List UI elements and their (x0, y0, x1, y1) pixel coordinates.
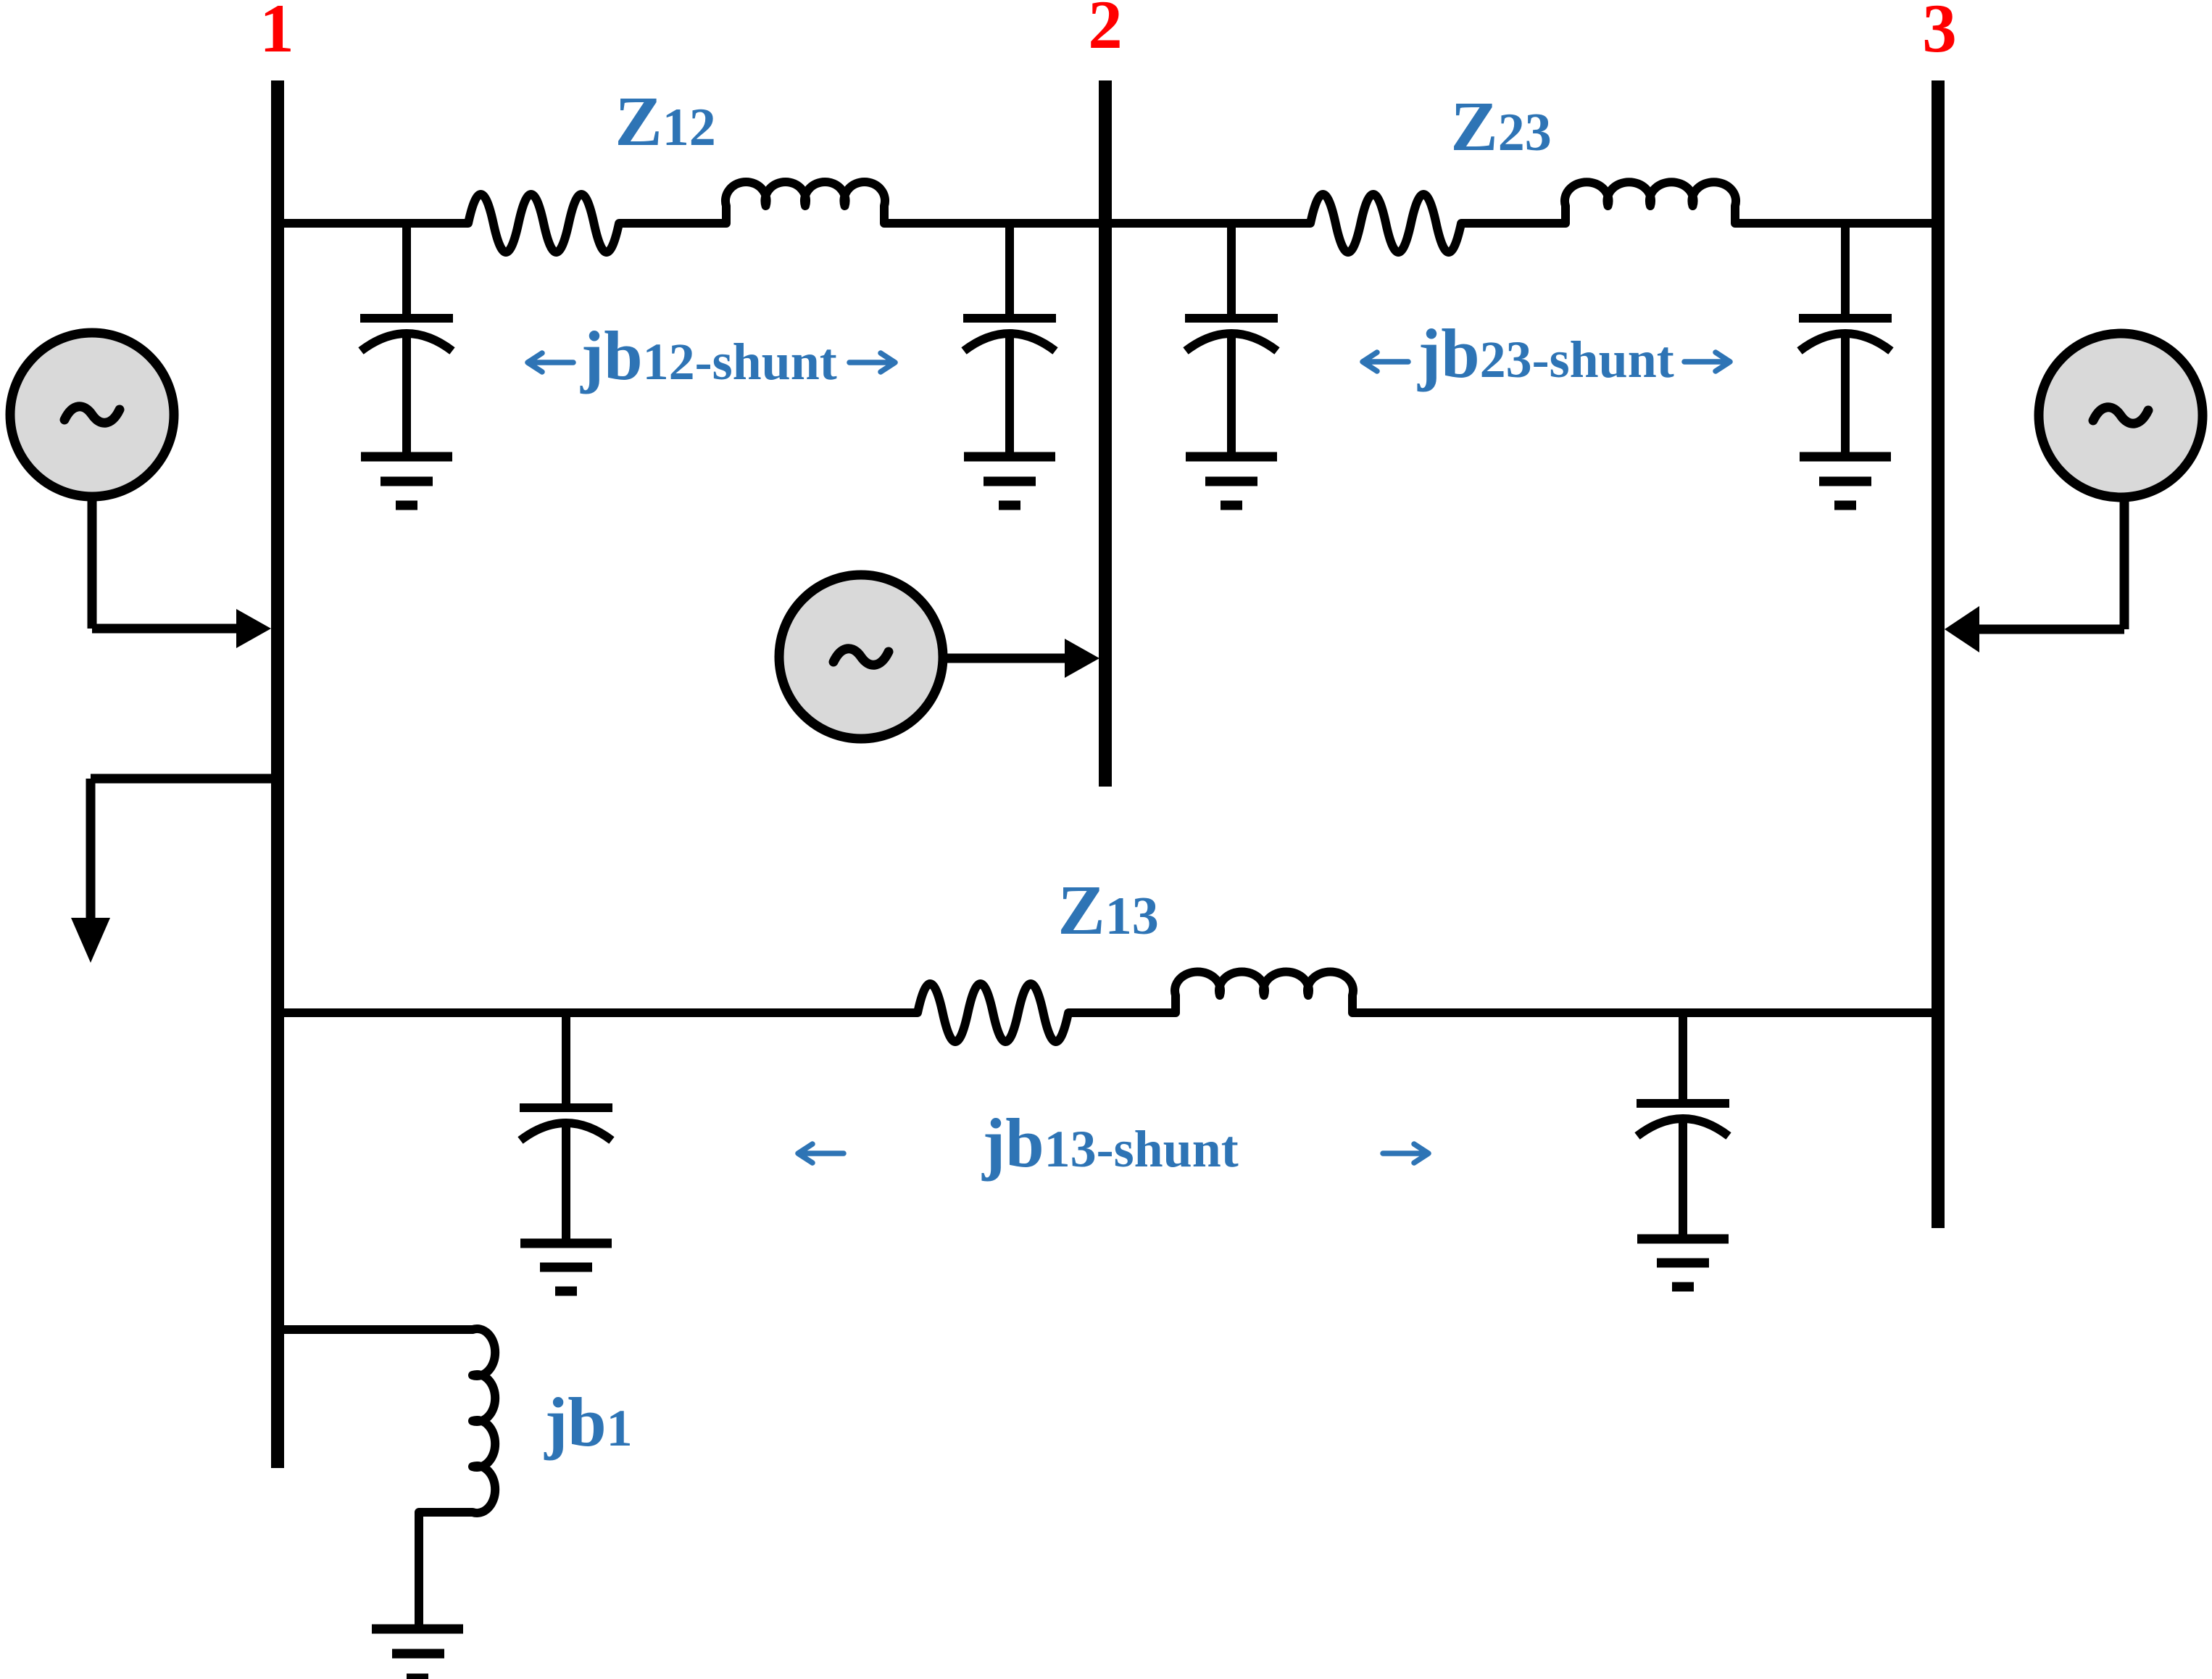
left arrow of jb23-shunt (1363, 352, 1408, 371)
wire G1 to bus 1 (92, 497, 239, 629)
ground of C12-1 (361, 457, 452, 505)
label jb12-shunt (580, 317, 836, 394)
svg-text:2: 2 (1088, 0, 1123, 63)
node label 2 (1088, 0, 1123, 63)
label jb13-shunt (981, 1104, 1238, 1182)
bus 2 (busbar) (1099, 80, 1112, 787)
left arrow of jb12-shunt (528, 353, 573, 372)
ground of C12-2 (964, 457, 1055, 505)
label Z13 (1057, 871, 1158, 950)
label Z12 (615, 83, 715, 161)
label Z23 (1450, 88, 1551, 166)
ground of C23-2 (1800, 457, 1891, 505)
ground of C23-1 (1186, 457, 1277, 505)
shunt inductor jb1 at bus 1 (278, 1329, 495, 1626)
shunt capacitor C23-2 (bus-3 end of Z23) (1799, 223, 1892, 457)
line Z23: wire with resistor and inductor between bus 2 and bus 3 (1112, 182, 1932, 252)
svg-text:3: 3 (1922, 0, 1957, 67)
load arrow at bus 1 (71, 779, 271, 963)
G1 tilde symbol (65, 407, 120, 423)
arrowhead G3 into bus 3 (1945, 606, 1979, 652)
shunt capacitor C12-2 (bus-2 end of Z12) (963, 223, 1056, 457)
generator G3 at bus 3 (2039, 333, 2203, 497)
right arrow of jb12-shunt (849, 353, 895, 372)
ground of C13-2 (1637, 1239, 1729, 1287)
shunt capacitor C13-1 (bus-1 end of Z13) (520, 1013, 612, 1243)
bus 1 (busbar) (271, 80, 284, 1468)
line Z12: wire with resistor and inductor between bus 1 and bus 2 (283, 182, 1099, 252)
wire G3 to bus 3 (1976, 497, 2124, 629)
G3 tilde symbol (2093, 407, 2148, 423)
arrowhead G1 into bus 1 (236, 609, 271, 648)
G2 tilde symbol (833, 649, 889, 665)
bus 3 (busbar) (1932, 80, 1945, 1228)
generator G2 at bus 2 (779, 575, 943, 739)
shunt capacitor C23-1 (bus-2 end of Z23) (1185, 223, 1278, 457)
right arrow of jb23-shunt (1684, 352, 1730, 371)
ground of C13-1 (520, 1243, 612, 1291)
wire G2 to bus 2 (941, 654, 1068, 663)
node label 3 (1922, 0, 1957, 67)
right arrow of jb13-shunt (1383, 1144, 1429, 1163)
shunt capacitor C13-2 (bus-3 end of Z13) (1637, 1010, 1729, 1239)
node label 1 (259, 0, 294, 67)
label jb23-shunt (1417, 315, 1673, 392)
ground of jb1 (372, 1629, 463, 1678)
generator G1 at bus 1 (10, 333, 174, 497)
svg-text:1: 1 (259, 0, 294, 67)
label jb1 (544, 1383, 632, 1461)
line Z13: wire with resistor and inductor between bus 1 and bus 3 (278, 972, 1938, 1042)
arrowhead G2 into bus 2 (1065, 639, 1099, 678)
shunt capacitor C12-1 (bus-1 end of Z12) (360, 223, 453, 457)
left arrow of jb13-shunt (798, 1144, 844, 1163)
